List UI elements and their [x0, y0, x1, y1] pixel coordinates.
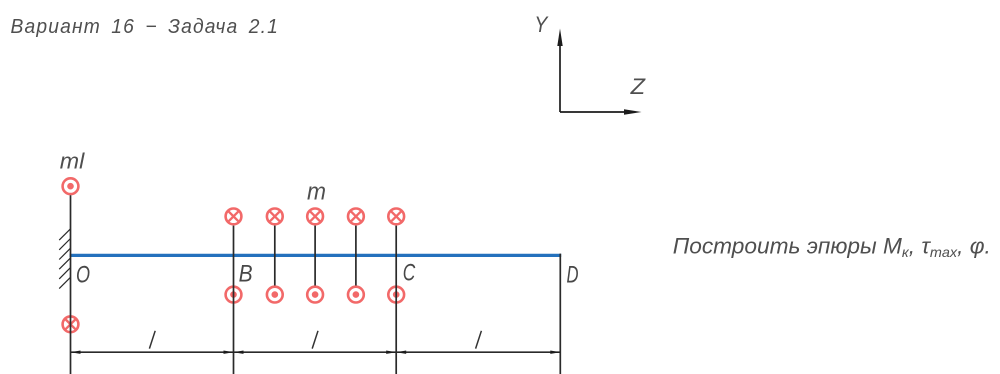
short vertical line 4 (cross to dot) [355, 226, 357, 286]
moment symbol cross at bottom left [63, 316, 79, 332]
Z axis arrowhead [624, 109, 642, 114]
svg-text:Y: Y [534, 12, 548, 37]
moment cross symbol 3 (m into page) [307, 209, 323, 225]
moment dot symbol 2 (m out of page) [267, 287, 283, 303]
svg-text:O: O [76, 262, 90, 289]
vertical line at C [395, 226, 397, 374]
svg-text:C: C [403, 260, 416, 287]
wall hatching [59, 229, 70, 289]
Y axis arrowhead [557, 29, 562, 47]
svg-text:B: B [239, 261, 253, 288]
Y axis line [559, 40, 561, 112]
short vertical line 3 (cross to dot) [314, 226, 316, 286]
svg-text:ml: ml [60, 149, 86, 174]
dimension label l (segment 1) [149, 331, 155, 349]
dimension arrow at D pointing right [550, 351, 560, 354]
moment dot symbol 3 (m out of page) [307, 287, 323, 303]
svg-text:m: m [307, 179, 326, 206]
moment dot symbol 4 (m out of page) [348, 287, 364, 303]
dimension arrow at B pointing right [224, 351, 234, 354]
dimension arrow at B pointing left [234, 351, 244, 354]
dimension line [71, 351, 561, 353]
moment dot symbol 5 at C (m out of page) [388, 287, 404, 303]
beam (blue shaft) [70, 254, 562, 257]
dimension arrow at C pointing right [386, 351, 396, 354]
dimension arrow at C pointing left [396, 351, 406, 354]
svg-text:Вариант 16 − Задача 2.1: Вариант 16 − Задача 2.1 [11, 16, 280, 38]
dimension arrow at O pointing left [71, 351, 81, 354]
moment cross symbol 5 at C (m into page) [388, 209, 404, 225]
vertical line at B [233, 226, 235, 374]
moment cross symbol 1 at B (m into page) [226, 209, 242, 225]
moment symbol ml: circle-dot at top left [63, 178, 79, 194]
Z axis line [560, 111, 630, 113]
moment cross symbol 4 (m into page) [348, 209, 364, 225]
short vertical line 2 (cross to dot) [274, 226, 276, 286]
vertical line at O (through ml and cross symbols) [70, 195, 72, 374]
svg-text:Z: Z [630, 74, 647, 99]
dimension label l (segment 2) [312, 331, 318, 349]
vertical line at D [559, 254, 561, 374]
svg-text:D: D [567, 262, 579, 289]
dimension label l (segment 3) [476, 331, 482, 349]
moment cross symbol 2 (m into page) [267, 209, 283, 225]
moment dot symbol 1 at B (m out of page) [226, 287, 242, 303]
